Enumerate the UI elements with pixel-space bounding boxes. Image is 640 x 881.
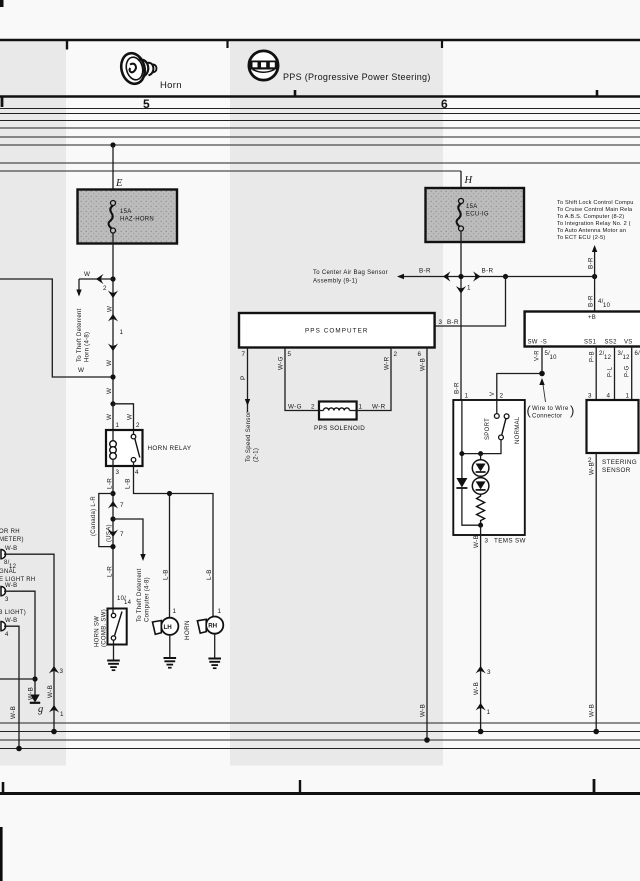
label HORN RELAY bbox=[148, 445, 192, 452]
svg-text:(COMB. SW): (COMB. SW) bbox=[102, 609, 108, 647]
wire color W-G at solenoid bbox=[288, 404, 302, 411]
arrow to air bag sensor bbox=[397, 274, 404, 279]
svg-text:B-R: B-R bbox=[588, 295, 595, 307]
connector arrow 3 on wire A bbox=[49, 666, 64, 675]
solenoid pin 2 bbox=[311, 404, 315, 411]
steering sensor pin 2 bbox=[588, 457, 592, 464]
label To destinations list bbox=[557, 200, 634, 241]
wire C to bottom bus bbox=[4, 626, 19, 748]
svg-text:PPS (Progressive Power Steerin: PPS (Progressive Power Steering) bbox=[283, 72, 431, 82]
svg-text:4: 4 bbox=[607, 393, 611, 400]
wire color W-B on wire A bbox=[47, 685, 54, 698]
horn relay switch bbox=[131, 430, 140, 466]
svg-text:1: 1 bbox=[173, 608, 177, 615]
wire H feed from bus to fuse bbox=[460, 171, 462, 203]
solenoid pin 1 bbox=[359, 404, 363, 411]
svg-text:7: 7 bbox=[120, 531, 124, 538]
svg-text:3 LIGHT): 3 LIGHT) bbox=[0, 610, 26, 616]
label PPS SOLENOID bbox=[314, 425, 365, 432]
wire down to +B pin bbox=[594, 277, 596, 312]
horn switch pin label 10/14 bbox=[117, 596, 132, 606]
pin 6 label bbox=[418, 351, 422, 358]
svg-text:L-R: L-R bbox=[107, 566, 114, 577]
svg-text:-S: -S bbox=[541, 340, 548, 346]
svg-text:To Auto Antenna Motor an: To Auto Antenna Motor an bbox=[557, 228, 626, 234]
svg-text:Wire to Wire: Wire to Wire bbox=[532, 406, 569, 412]
Canada bypass loop bbox=[91, 494, 113, 547]
svg-text:1: 1 bbox=[359, 404, 363, 411]
diode D1 bbox=[456, 478, 480, 525]
horn switch SW box bbox=[108, 609, 127, 645]
svg-text:2: 2 bbox=[136, 422, 140, 429]
PPS solenoid L1 bbox=[319, 402, 357, 420]
svg-text:W-B: W-B bbox=[5, 618, 17, 624]
svg-text:10: 10 bbox=[550, 355, 558, 361]
pin 2/12 label bbox=[599, 351, 612, 361]
wire color P-G bbox=[625, 365, 631, 377]
corner mark top-left bbox=[0, 0, 4, 7]
svg-text:Computer (4-8): Computer (4-8) bbox=[145, 577, 151, 622]
label HORN SW (COMB. SW) bbox=[95, 609, 108, 647]
svg-text:W: W bbox=[106, 360, 113, 366]
connector pin 3 bbox=[5, 597, 9, 603]
svg-text:(Canada) L-R: (Canada) L-R bbox=[91, 496, 97, 536]
svg-text:2: 2 bbox=[311, 404, 315, 411]
svg-text:LH: LH bbox=[164, 624, 173, 631]
steering ECU box (cut at page edge) bbox=[525, 312, 640, 347]
junction relay branch bbox=[110, 401, 115, 406]
off-page W wire from left bbox=[0, 279, 113, 377]
ground below LH horn bbox=[164, 635, 177, 668]
svg-text:W-B: W-B bbox=[420, 704, 427, 717]
svg-text:B-R: B-R bbox=[588, 257, 595, 269]
bus line 3 bbox=[0, 127, 640, 129]
svg-text:1: 1 bbox=[120, 329, 124, 336]
junction wire C bus bbox=[16, 746, 22, 752]
svg-text:2: 2 bbox=[500, 393, 504, 400]
wire color B-R bbox=[482, 268, 494, 275]
svg-text:V-R: V-R bbox=[535, 350, 541, 361]
partial label light bbox=[0, 610, 26, 616]
svg-text:To Shift Lock Control Compu: To Shift Lock Control Compu bbox=[557, 200, 634, 206]
pin 5/10 label bbox=[545, 351, 558, 361]
junction main/off-page wire bbox=[110, 374, 115, 379]
svg-text:W-B: W-B bbox=[5, 583, 17, 589]
svg-text:STEERING: STEERING bbox=[602, 459, 637, 466]
wire color L-R bbox=[107, 566, 114, 577]
wire color B-R bbox=[419, 268, 431, 275]
label TEMS SW bbox=[494, 538, 526, 545]
RH horn pin 1 bbox=[218, 608, 222, 615]
svg-text:To Cruise Control Main Rela: To Cruise Control Main Rela bbox=[557, 207, 633, 213]
svg-text:To ECT ECU (2-5): To ECT ECU (2-5) bbox=[557, 235, 605, 241]
connector arrow left on B-R wire bbox=[443, 271, 451, 281]
svg-text:SW: SW bbox=[528, 340, 538, 346]
spur wire from left edge bbox=[0, 678, 35, 680]
svg-text:W-G: W-G bbox=[278, 356, 285, 370]
svg-text:14: 14 bbox=[124, 600, 132, 606]
label To Speed Sensor (2-1) bbox=[246, 411, 260, 462]
section number 6 bbox=[441, 97, 448, 111]
svg-text:12: 12 bbox=[623, 355, 631, 361]
TEMS bottom wire to pin3 bbox=[480, 525, 482, 731]
wire color L-B bbox=[163, 569, 170, 580]
label HORN bbox=[184, 620, 191, 640]
junction steering sensor bus bbox=[593, 729, 599, 735]
svg-text:NORMAL: NORMAL bbox=[515, 416, 521, 444]
label Horn bbox=[160, 80, 182, 91]
label NORMAL bbox=[515, 416, 521, 444]
svg-text:W-B: W-B bbox=[420, 358, 427, 371]
svg-text:W-B: W-B bbox=[473, 682, 480, 695]
LH horn pin 1 bbox=[173, 608, 177, 615]
tick on top border at x=442 bbox=[441, 41, 443, 48]
wire color W bbox=[107, 306, 114, 312]
wire SW pin to TEMS bbox=[497, 347, 542, 401]
wire color V-R bbox=[535, 350, 541, 361]
svg-text:To Theft Deterrent: To Theft Deterrent bbox=[137, 568, 143, 622]
svg-text:W: W bbox=[106, 414, 113, 420]
svg-text:6: 6 bbox=[418, 351, 422, 358]
svg-text:HORN RELAY: HORN RELAY bbox=[148, 445, 192, 452]
junction wire B ground spur bbox=[32, 676, 37, 681]
bus line 4 bbox=[0, 136, 640, 138]
svg-text:1: 1 bbox=[116, 422, 120, 429]
wire color W-G bbox=[278, 356, 285, 370]
svg-text:L-B: L-B bbox=[206, 569, 213, 580]
TEMS switch contacts bbox=[462, 400, 509, 454]
svg-text:W: W bbox=[78, 367, 84, 374]
svg-text:HAZ-HORN: HAZ-HORN bbox=[120, 217, 154, 223]
indicator lamp lower bbox=[472, 478, 489, 495]
wire color W-B on ground wire bbox=[28, 687, 35, 700]
svg-text:3: 3 bbox=[485, 538, 489, 545]
svg-text:+B: +B bbox=[588, 315, 596, 321]
bottom bus line 1 bbox=[0, 722, 640, 724]
label To Theft Deterrent Computer (4-8) bbox=[137, 568, 151, 622]
indicator lamp upper bbox=[472, 454, 489, 477]
black margin line bottom-left bbox=[0, 827, 3, 881]
pin 3/12 label bbox=[618, 351, 631, 361]
tick on top border at x=227 bbox=[226, 41, 228, 48]
resistor R1 bbox=[477, 494, 485, 525]
bus line 0 bbox=[0, 108, 640, 110]
svg-text:4: 4 bbox=[5, 632, 9, 638]
svg-text:P-B: P-B bbox=[590, 351, 596, 362]
wire color W-B lower bbox=[420, 704, 427, 717]
svg-text:B-R: B-R bbox=[419, 268, 431, 275]
ground below horn switch bbox=[107, 645, 120, 671]
connector arrow 3 on TEMS ground wire bbox=[476, 666, 492, 676]
svg-text:3: 3 bbox=[487, 669, 491, 676]
TEMS pin 1 label bbox=[465, 393, 469, 400]
label To Theft Deterrent Horn (4-8) bbox=[77, 308, 91, 362]
horn relay coil bbox=[110, 430, 117, 466]
svg-text:L-B: L-B bbox=[125, 478, 132, 489]
svg-text:P: P bbox=[240, 375, 247, 380]
junction below fuse bbox=[110, 276, 115, 281]
wire color W bbox=[106, 360, 113, 366]
wire color W-R bbox=[384, 356, 391, 370]
bottom bus line 2 bbox=[0, 731, 640, 733]
bus line 1 bbox=[0, 113, 640, 115]
LH horn bbox=[153, 618, 179, 635]
TEMS pin1 internal wire bbox=[461, 400, 463, 478]
wire color W-B label C bbox=[5, 618, 17, 624]
wire relay pin4 to horns bbox=[134, 466, 214, 617]
svg-text:W-R: W-R bbox=[384, 356, 391, 370]
section header line bbox=[0, 95, 640, 98]
svg-text:1: 1 bbox=[626, 393, 630, 400]
junction wire A bus bbox=[51, 729, 57, 735]
wire color W-R at solenoid bbox=[372, 404, 386, 411]
bottom border tick at x=594 bbox=[593, 779, 596, 793]
svg-text:GNAL: GNAL bbox=[0, 569, 17, 575]
svg-text:HORN SW: HORN SW bbox=[95, 616, 101, 647]
wire color B-R at TEMS bbox=[454, 382, 461, 394]
relay pin labels 3 4 bbox=[116, 469, 140, 476]
wire pin6 W-B long down bbox=[426, 348, 428, 741]
junction TEMS internal left bbox=[459, 451, 464, 456]
svg-text:P-G: P-G bbox=[625, 365, 631, 377]
header tick at x=295 bbox=[294, 90, 297, 97]
svg-text:Horn: Horn bbox=[160, 80, 182, 91]
node H label bbox=[464, 175, 474, 186]
junction +B branch bbox=[592, 274, 597, 279]
wire color W-B bbox=[420, 358, 427, 371]
svg-text:PPS COMPUTER: PPS COMPUTER bbox=[305, 328, 369, 335]
svg-text:(: ( bbox=[527, 403, 532, 418]
junction pin6 wire bus bbox=[424, 737, 430, 743]
wire color W-B at pin3 bbox=[473, 535, 480, 548]
bus line 5 (E feed) bbox=[0, 144, 640, 146]
bottom bus line 4 bbox=[0, 748, 640, 750]
svg-text:W: W bbox=[127, 414, 134, 420]
grey band middle bbox=[230, 42, 443, 766]
junction TEMS internal indicator bbox=[478, 451, 483, 456]
wire steering sensor pin2 to bus bbox=[595, 453, 597, 732]
header tick at x=597 bbox=[596, 90, 599, 97]
connector pin 8/12 bbox=[4, 560, 17, 570]
svg-text:W-B: W-B bbox=[10, 706, 17, 719]
label SPORT bbox=[485, 418, 491, 440]
svg-text:7: 7 bbox=[242, 351, 246, 358]
junction ECU-IG / B-R wire bbox=[458, 274, 463, 279]
svg-text:W: W bbox=[107, 306, 114, 312]
svg-text:HORN: HORN bbox=[184, 620, 191, 640]
svg-text:W: W bbox=[106, 388, 113, 394]
pin 5 label bbox=[288, 351, 292, 358]
wire relay pin3 down bbox=[112, 466, 114, 609]
svg-text:H: H bbox=[464, 175, 474, 186]
svg-text:SS1: SS1 bbox=[584, 340, 597, 346]
svg-text:SS2: SS2 bbox=[605, 340, 618, 346]
node E label bbox=[115, 178, 123, 189]
svg-text:To Theft Deterrent: To Theft Deterrent bbox=[77, 308, 83, 362]
svg-text:B-R: B-R bbox=[482, 268, 494, 275]
svg-text:1: 1 bbox=[60, 711, 64, 718]
wire VS to steering sensor pin1 bbox=[631, 347, 633, 401]
branch wire to theft deterrent computer bbox=[113, 519, 146, 561]
pin 3 label and wire color bbox=[439, 319, 459, 326]
connector arrow up on main wire bbox=[108, 314, 118, 322]
junction theft computer branch bbox=[110, 516, 115, 521]
pin 7 label bbox=[242, 351, 246, 358]
svg-text:3: 3 bbox=[439, 319, 443, 326]
svg-text:ECU-IG: ECU-IG bbox=[466, 212, 489, 218]
svg-text:Connector: Connector bbox=[532, 414, 562, 420]
fuse element HAZ-HORN bbox=[109, 201, 116, 234]
svg-text:W-B: W-B bbox=[5, 546, 17, 552]
fuse 15A ECU-IG box bbox=[426, 188, 525, 242]
svg-text:15A: 15A bbox=[120, 209, 132, 215]
wire fuse output down bbox=[112, 233, 114, 404]
wire color P bbox=[240, 375, 247, 380]
svg-text:SENSOR: SENSOR bbox=[602, 467, 631, 474]
svg-text:VS: VS bbox=[624, 340, 633, 346]
svg-text:W-B: W-B bbox=[589, 704, 596, 717]
svg-text:4: 4 bbox=[135, 469, 139, 476]
svg-text:g: g bbox=[38, 704, 43, 715]
connector pin 2 label bbox=[103, 285, 107, 292]
junction TEMS wire bus bbox=[478, 729, 484, 735]
connector arrow up pin 7 bbox=[108, 501, 124, 509]
section number 5 bbox=[143, 97, 150, 111]
svg-text:5: 5 bbox=[288, 351, 292, 358]
branch wire to Theft Deterrent Horn bbox=[76, 271, 113, 297]
junction bypass return bbox=[110, 544, 115, 549]
PPS computer U2 box bbox=[239, 313, 435, 348]
wire color W-B on wire C bbox=[10, 706, 17, 719]
svg-text:Horn (4-8): Horn (4-8) bbox=[85, 332, 91, 362]
fuse element ECU-IG bbox=[457, 199, 464, 232]
svg-text:W-B: W-B bbox=[47, 685, 54, 698]
connector arrow down pin 7 bbox=[108, 530, 124, 539]
svg-text:7: 7 bbox=[120, 502, 124, 509]
svg-text:12: 12 bbox=[604, 355, 612, 361]
label PPS (Progressive Power Steering) bbox=[283, 72, 431, 82]
bus line 6 bbox=[0, 162, 640, 164]
svg-text:B-R: B-R bbox=[447, 319, 459, 326]
svg-text:2: 2 bbox=[103, 285, 107, 292]
RH horn bbox=[197, 617, 223, 634]
connector arrow down on main wire bbox=[108, 291, 118, 299]
wire color W labels above relay bbox=[106, 414, 134, 420]
ground below RH horn bbox=[208, 634, 221, 669]
branch wire to relay pin 2 bbox=[113, 404, 134, 430]
wire color W-B bbox=[589, 462, 596, 475]
connector arrow right on B-R wire bbox=[473, 271, 481, 281]
page top border line bbox=[0, 39, 640, 42]
svg-text:3: 3 bbox=[5, 597, 9, 603]
svg-text:P-L: P-L bbox=[608, 366, 614, 377]
connector pin 4 bbox=[5, 632, 9, 638]
grey band left bbox=[0, 42, 66, 766]
pin 6/1 label bbox=[635, 351, 640, 357]
svg-text:RH: RH bbox=[208, 623, 217, 630]
junction wire to wire connector bbox=[539, 371, 545, 377]
wire to LH horn bbox=[169, 494, 171, 618]
svg-text:1: 1 bbox=[218, 608, 222, 615]
partial label turn signal light RH bbox=[0, 569, 36, 583]
svg-text:W: W bbox=[84, 271, 90, 278]
header left corner bracket bbox=[1, 96, 4, 107]
wire A to bottom bus bbox=[4, 554, 54, 731]
TEMS pin 3 label bbox=[485, 538, 489, 545]
svg-text:10: 10 bbox=[603, 303, 611, 309]
TEMS SW box bbox=[453, 400, 525, 535]
wire color W bbox=[106, 388, 113, 394]
svg-text:SPORT: SPORT bbox=[485, 418, 491, 440]
fuse 15A HAZ-HORN box bbox=[78, 190, 178, 244]
wire color W-B lower bbox=[589, 704, 596, 717]
svg-text:3: 3 bbox=[116, 469, 120, 476]
node E junction on bus line bbox=[110, 142, 115, 147]
junction LH horn bbox=[167, 491, 172, 496]
svg-text:W-B: W-B bbox=[589, 462, 596, 475]
connector arrow down 2 on main wire bbox=[108, 344, 118, 352]
bus line 7 (H feed, turns down at x=461) bbox=[0, 170, 461, 172]
svg-text:2: 2 bbox=[394, 351, 398, 358]
wire to PPS computer pin 3 bbox=[435, 277, 506, 327]
steering sensor pins 3 4 1 bbox=[588, 393, 630, 400]
svg-text:TEMS SW: TEMS SW bbox=[494, 538, 526, 545]
connector pin 1 label bbox=[120, 329, 124, 336]
junction PPS computer pin3 branch bbox=[503, 274, 508, 279]
wire SS2 to steering sensor pin4 bbox=[614, 347, 616, 401]
connector half-circle B bbox=[1, 587, 6, 596]
svg-text:PPS SOLENOID: PPS SOLENOID bbox=[314, 425, 365, 432]
svg-text:W-G: W-G bbox=[288, 404, 302, 411]
wire solenoid to pin2 bbox=[357, 348, 391, 411]
label To Center Air Bag Sensor Assembly (9-1) bbox=[313, 270, 388, 285]
wire up to ECU accessories bbox=[592, 245, 597, 277]
partial label (FOR RH METER) bbox=[0, 529, 24, 543]
svg-text:3: 3 bbox=[588, 393, 592, 400]
connector half-circle A bbox=[1, 550, 6, 559]
svg-text:W-R: W-R bbox=[372, 404, 386, 411]
wire color P-L bbox=[608, 366, 614, 377]
wire color W-B label B bbox=[5, 583, 17, 589]
bottom border tick at x=300 bbox=[299, 780, 301, 793]
relay pin labels 1 2 bbox=[116, 422, 141, 429]
wire color W-B bbox=[473, 682, 480, 695]
wire SS1 to steering sensor pin3 bbox=[595, 347, 597, 401]
svg-text:To Speed Sensor: To Speed Sensor bbox=[246, 411, 252, 462]
svg-text:METER): METER) bbox=[0, 537, 24, 543]
wire E feed down to fuse bbox=[112, 145, 114, 203]
connector half-circle C bbox=[1, 622, 6, 631]
svg-text:OR RH: OR RH bbox=[0, 529, 20, 535]
horn icon bbox=[118, 51, 156, 87]
horn switch contacts bbox=[111, 609, 122, 645]
wire B to body ground bbox=[4, 591, 35, 695]
svg-text:To Center Air Bag Sensor: To Center Air Bag Sensor bbox=[313, 270, 388, 276]
wire pin7 to speed sensor bbox=[245, 348, 250, 413]
svg-text:To A.B.S. Computer (8-2): To A.B.S. Computer (8-2) bbox=[557, 214, 624, 220]
label STEERING SENSOR bbox=[602, 459, 637, 474]
connector arrow 1 on TEMS ground wire bbox=[476, 703, 491, 716]
svg-text:W-B: W-B bbox=[473, 535, 480, 548]
bottom bus line 3 bbox=[0, 739, 640, 741]
wire color W-B label A bbox=[5, 546, 17, 552]
wire color B-R bbox=[588, 295, 595, 307]
B-R distribution wire bbox=[399, 276, 595, 278]
svg-text:1: 1 bbox=[467, 285, 471, 292]
svg-text:1: 1 bbox=[487, 709, 491, 716]
pin 2 label bbox=[394, 351, 398, 358]
svg-text:B-R: B-R bbox=[454, 382, 461, 394]
